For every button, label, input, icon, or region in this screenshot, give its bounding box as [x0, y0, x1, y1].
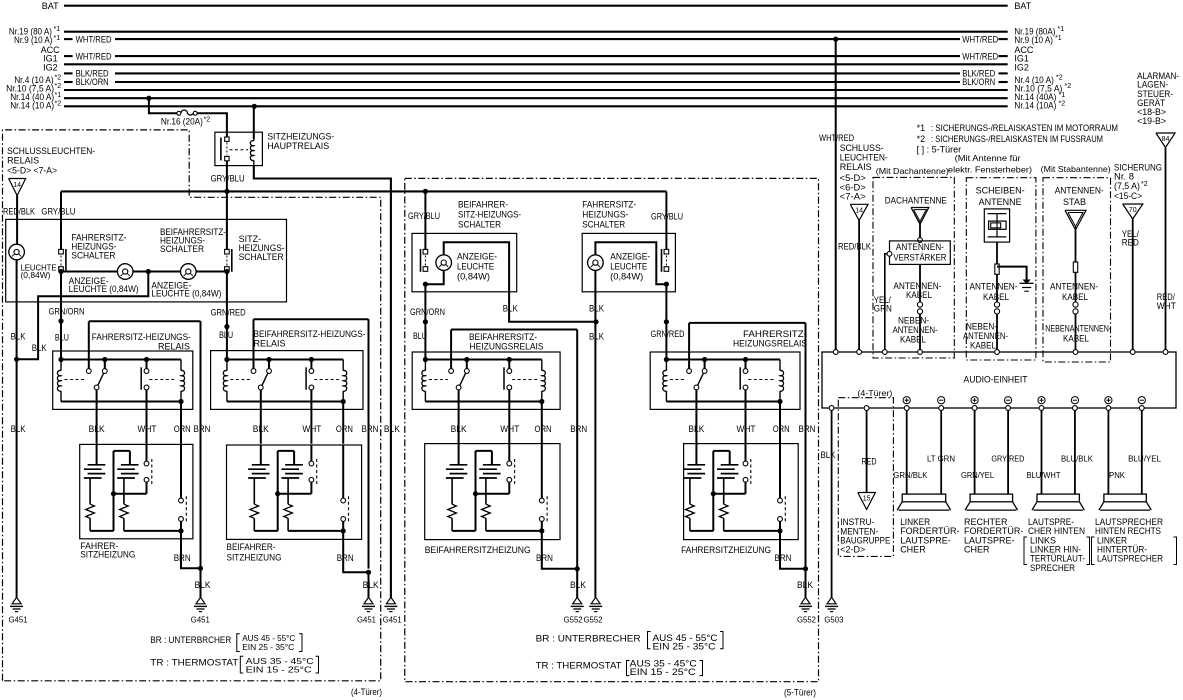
svg-text:BLK: BLK — [363, 580, 379, 590]
svg-text:G451: G451 — [383, 615, 402, 625]
svg-text:KABEL: KABEL — [900, 335, 926, 345]
svg-text:BLK: BLK — [32, 343, 47, 353]
svg-text:WHT/RED: WHT/RED — [819, 133, 854, 143]
svg-text:BLK/ORN: BLK/ORN — [76, 77, 109, 87]
svg-text:EIN 15 - 25°C: EIN 15 - 25°C — [246, 665, 312, 675]
svg-text:LEUCHTE: LEUCHTE — [610, 261, 647, 271]
svg-text:BRN: BRN — [775, 553, 792, 563]
svg-text:: SICHERUNGS-/RELAISKASTEN IM: : SICHERUNGS-/RELAISKASTEN IM MOTORRAUM — [931, 123, 1118, 133]
svg-text:RELAIS: RELAIS — [158, 341, 190, 351]
svg-text:AUDIO-EINHEIT: AUDIO-EINHEIT — [964, 375, 1028, 385]
svg-text:14: 14 — [855, 207, 863, 214]
svg-text:(Mit Dachantenne): (Mit Dachantenne) — [876, 166, 949, 176]
svg-text:IG2: IG2 — [1014, 62, 1029, 72]
svg-text:BEIFAHRER-: BEIFAHRER- — [227, 542, 276, 552]
svg-text:WHT: WHT — [138, 424, 157, 434]
svg-text:TR : THERMOSTAT: TR : THERMOSTAT — [150, 658, 239, 668]
svg-text:KABEL: KABEL — [1062, 292, 1088, 302]
svg-text:(7,5 A): (7,5 A) — [1114, 181, 1140, 191]
svg-text:*1: *1 — [917, 123, 926, 133]
svg-text:BLK: BLK — [589, 332, 604, 342]
svg-text:Nr.9 (10 A): Nr.9 (10 A) — [1014, 35, 1053, 45]
svg-text:ANTENNEN-: ANTENNEN- — [1050, 282, 1098, 292]
svg-text:<5-D> <7-A>: <5-D> <7-A> — [7, 165, 57, 175]
svg-text:ANTENNEN-: ANTENNEN- — [963, 331, 1008, 341]
svg-text:BLK: BLK — [503, 304, 518, 314]
svg-text:EIN 25 - 35°C: EIN 25 - 35°C — [653, 641, 717, 651]
svg-text:ORN: ORN — [174, 424, 191, 434]
svg-text:FAHRERSITZ-: FAHRERSITZ- — [582, 200, 636, 210]
svg-text:LT GRN: LT GRN — [927, 453, 955, 463]
svg-text:*2: *2 — [1141, 181, 1148, 188]
svg-text:*2: *2 — [1059, 100, 1066, 107]
svg-text:GRN/RED: GRN/RED — [211, 308, 246, 318]
svg-text:BEIFAHRERSITZHEIZUNG: BEIFAHRERSITZHEIZUNG — [425, 545, 531, 555]
svg-text:GRN/RED: GRN/RED — [651, 329, 685, 339]
svg-text:BAT: BAT — [1014, 1, 1031, 11]
svg-text:<15-C>: <15-C> — [1114, 191, 1142, 201]
svg-text:NEBEN-: NEBEN- — [898, 316, 929, 326]
svg-text:GRY/BLU: GRY/BLU — [41, 207, 75, 217]
svg-text:BR : UNTERBRCHER: BR : UNTERBRCHER — [150, 635, 231, 645]
svg-text:Nr. 8: Nr. 8 — [1114, 171, 1134, 181]
svg-text:G451: G451 — [357, 615, 376, 625]
svg-text:BRN: BRN — [194, 424, 211, 434]
svg-text:BLK: BLK — [253, 424, 269, 434]
svg-text:GRN/YEL: GRN/YEL — [961, 470, 994, 480]
svg-text:BLU: BLU — [55, 332, 69, 342]
svg-text:BRN: BRN — [799, 424, 816, 434]
svg-text:STAB: STAB — [1063, 197, 1086, 207]
svg-text:elektr. Fensterheber): elektr. Fensterheber) — [948, 164, 1032, 174]
svg-text:BLK: BLK — [451, 424, 467, 434]
svg-text:BRN: BRN — [337, 553, 354, 563]
svg-text:BLK: BLK — [11, 424, 26, 434]
svg-text:WHT: WHT — [737, 424, 756, 434]
svg-text:<7-A>: <7-A> — [840, 192, 866, 202]
svg-text:BLK/ORN: BLK/ORN — [962, 77, 995, 87]
svg-text:Nr.14 (10A): Nr.14 (10A) — [1014, 101, 1056, 111]
svg-text:WHT: WHT — [302, 424, 321, 434]
svg-text:BLK: BLK — [11, 332, 26, 342]
svg-text:SCHALTER: SCHALTER — [160, 244, 204, 254]
svg-text:LEUCHTE (0,84W): LEUCHTE (0,84W) — [69, 284, 139, 294]
svg-text:GRY/BLU: GRY/BLU — [651, 212, 683, 222]
svg-text:BLK: BLK — [589, 304, 604, 314]
svg-text:ANZEIGE-: ANZEIGE- — [610, 251, 650, 261]
svg-text:14: 14 — [13, 182, 21, 189]
svg-text:*2: *2 — [204, 116, 211, 123]
svg-text:SCHALTER: SCHALTER — [582, 220, 625, 230]
svg-text:G552: G552 — [584, 615, 603, 625]
svg-text:BLK: BLK — [821, 450, 836, 460]
svg-text:GRN/ORN: GRN/ORN — [410, 307, 445, 317]
svg-text:BLU: BLU — [219, 330, 233, 340]
svg-text:*1: *1 — [54, 26, 61, 33]
svg-text:ORN: ORN — [773, 424, 790, 434]
svg-text:HAUPTRELAIS: HAUPTRELAIS — [267, 141, 329, 151]
svg-text:(4-Türer): (4-Türer) — [857, 388, 892, 398]
svg-text:70: 70 — [1129, 207, 1137, 214]
svg-text:BEIFAHRERSITZ-HEIZUNGS-: BEIFAHRERSITZ-HEIZUNGS- — [254, 329, 366, 339]
svg-text:SITZ-HEIZUNGS-: SITZ-HEIZUNGS- — [458, 210, 521, 220]
svg-text:(0,84W): (0,84W) — [610, 271, 643, 281]
svg-text:WHT/RED: WHT/RED — [962, 51, 998, 61]
svg-text:RELAIS: RELAIS — [840, 162, 872, 172]
svg-text:GRN: GRN — [874, 304, 892, 314]
svg-text:ORN: ORN — [535, 424, 552, 434]
svg-text:LAUTSPRECHER: LAUTSPRECHER — [1097, 554, 1163, 564]
svg-text:RELAIS: RELAIS — [7, 156, 39, 166]
svg-text:RED: RED — [862, 456, 877, 466]
svg-text:(0,84W): (0,84W) — [457, 271, 490, 281]
svg-text:LEUCHTE: LEUCHTE — [457, 261, 494, 271]
svg-text:HEIZUNGS-: HEIZUNGS- — [582, 210, 628, 220]
svg-text:BRN: BRN — [362, 424, 379, 434]
svg-text:<2-D>: <2-D> — [840, 545, 865, 555]
svg-text:(5-Türer): (5-Türer) — [784, 687, 816, 697]
svg-text:VERSTÄRKER: VERSTÄRKER — [893, 252, 946, 262]
svg-text:*1: *1 — [1055, 35, 1062, 42]
svg-text:G451: G451 — [191, 615, 210, 625]
svg-text:BRN: BRN — [174, 553, 191, 563]
svg-text:PNK: PNK — [1109, 470, 1125, 480]
svg-text:(0,84W): (0,84W) — [21, 270, 51, 280]
svg-text:SCHALTER: SCHALTER — [239, 252, 284, 262]
svg-text:ANZEIGE-: ANZEIGE- — [457, 251, 497, 261]
svg-text:15: 15 — [863, 496, 871, 503]
svg-text:BLU/BLK: BLU/BLK — [1061, 453, 1093, 463]
svg-text:BRN: BRN — [570, 424, 587, 434]
svg-text:ANTENNEN-: ANTENNEN- — [970, 282, 1018, 292]
svg-text:ANTENNEN-: ANTENNEN- — [893, 325, 938, 335]
svg-text:WHT: WHT — [1157, 301, 1176, 311]
svg-text:TR : THERMOSTAT: TR : THERMOSTAT — [536, 660, 623, 670]
svg-text:(Mit Stabantenne): (Mit Stabantenne) — [1041, 164, 1111, 174]
svg-text:RELAIS: RELAIS — [254, 339, 286, 349]
svg-text:BEIFAHRER-: BEIFAHRER- — [458, 200, 508, 210]
svg-text:*2: *2 — [917, 134, 926, 144]
svg-text:(4-Türer): (4-Türer) — [351, 687, 382, 697]
svg-text:GRY/BLU: GRY/BLU — [408, 211, 440, 221]
svg-text:LEUCHTE (0,84W): LEUCHTE (0,84W) — [151, 289, 221, 299]
svg-text:Nr.9 (10 A): Nr.9 (10 A) — [14, 35, 53, 45]
svg-text:SCHALTER: SCHALTER — [458, 220, 501, 230]
svg-text:KABEL: KABEL — [906, 290, 932, 300]
svg-text:CHER: CHER — [964, 545, 990, 555]
svg-text:G552: G552 — [564, 615, 583, 625]
svg-text:KABEL: KABEL — [1063, 334, 1089, 344]
svg-text:G552: G552 — [797, 615, 816, 625]
svg-text:BAT: BAT — [42, 1, 59, 11]
svg-text:LEUCHTEN-: LEUCHTEN- — [840, 153, 888, 163]
svg-text:ANTENNEN-: ANTENNEN- — [896, 242, 944, 252]
svg-text:*2: *2 — [55, 83, 62, 90]
svg-text:*2: *2 — [1065, 83, 1072, 90]
svg-text:EIN 25 - 35°C: EIN 25 - 35°C — [242, 642, 294, 652]
svg-text:EIN 15 - 25°C: EIN 15 - 25°C — [630, 667, 697, 677]
svg-text:WHT/RED: WHT/RED — [76, 34, 112, 44]
svg-text:*2: *2 — [55, 75, 62, 82]
svg-text:SCHEIBEN-: SCHEIBEN- — [976, 186, 1025, 196]
svg-text:ANTENNE: ANTENNE — [979, 197, 1022, 207]
svg-text:GRN/BLK: GRN/BLK — [893, 470, 927, 480]
svg-text:WHT/RED: WHT/RED — [962, 34, 998, 44]
svg-text:GRY/RED: GRY/RED — [991, 453, 1024, 463]
svg-text:*2: *2 — [55, 100, 62, 107]
svg-text:IG2: IG2 — [43, 62, 58, 72]
svg-text:(Mit Antenne für: (Mit Antenne für — [955, 153, 1021, 163]
svg-text:CHER: CHER — [900, 545, 926, 555]
svg-text:BLK: BLK — [89, 424, 105, 434]
svg-text:BRN: BRN — [536, 553, 553, 563]
svg-text:BLK: BLK — [195, 580, 211, 590]
svg-text:BLU/WHT: BLU/WHT — [1027, 470, 1062, 480]
svg-text:G503: G503 — [824, 615, 843, 625]
svg-text:Nr.16 (20A): Nr.16 (20A) — [161, 116, 203, 126]
svg-text:BR : UNTERBRECHER: BR : UNTERBRECHER — [536, 633, 642, 643]
svg-text:WHT: WHT — [500, 424, 519, 434]
svg-text:BLU: BLU — [413, 331, 427, 341]
svg-text:*1: *1 — [55, 92, 62, 99]
svg-text:HEIZUNGSRELAIS: HEIZUNGSRELAIS — [470, 342, 544, 352]
svg-text:KABEL: KABEL — [983, 292, 1009, 302]
svg-text:BLK: BLK — [384, 424, 400, 434]
svg-text:G451: G451 — [9, 615, 28, 625]
svg-text:BLK: BLK — [688, 424, 704, 434]
svg-text:Nr.14 (10 A): Nr.14 (10 A) — [10, 101, 54, 111]
svg-text:SITZHEIZUNG: SITZHEIZUNG — [80, 550, 135, 560]
svg-text:BLU/YEL: BLU/YEL — [1128, 453, 1161, 463]
svg-text:RED: RED — [1122, 237, 1139, 247]
svg-text:*1: *1 — [1058, 26, 1065, 33]
svg-text:*2: *2 — [1056, 75, 1063, 82]
svg-text:ORN: ORN — [336, 424, 353, 434]
svg-text:RED/BLK: RED/BLK — [838, 242, 871, 252]
svg-text:WHT/RED: WHT/RED — [76, 51, 112, 61]
svg-text:FAHRERSITZHEIZUNG: FAHRERSITZHEIZUNG — [681, 545, 771, 555]
svg-text:SCHALTER: SCHALTER — [71, 251, 115, 261]
svg-text:BEIFAHRERSITZ-: BEIFAHRERSITZ- — [469, 332, 537, 342]
svg-text:GRN/ORN: GRN/ORN — [49, 307, 85, 317]
svg-text:SITZHEIZUNG: SITZHEIZUNG — [227, 553, 282, 563]
svg-text:NEBENANTENNEN-: NEBENANTENNEN- — [1045, 324, 1111, 334]
svg-text:KABEL: KABEL — [970, 340, 996, 350]
svg-text:HEIZUNGSRELAIS: HEIZUNGSRELAIS — [733, 339, 807, 349]
svg-text:NEBEN-: NEBEN- — [966, 321, 997, 331]
svg-text:RED/BLK: RED/BLK — [3, 207, 35, 217]
svg-text:DACHANTENNE: DACHANTENNE — [885, 196, 947, 206]
svg-text:*1: *1 — [1059, 92, 1066, 99]
svg-text:SCHLUSS-: SCHLUSS- — [840, 143, 884, 153]
svg-text:: SICHERUNGS-/RELAISKASTEN IM: : SICHERUNGS-/RELAISKASTEN IM FUSSRAUM — [931, 134, 1103, 144]
svg-text:SPRECHER: SPRECHER — [1030, 563, 1075, 573]
svg-text:84: 84 — [1162, 136, 1170, 143]
svg-text:<19-B>: <19-B> — [1137, 116, 1166, 126]
svg-text:ANTENNEN-: ANTENNEN- — [1055, 186, 1104, 196]
svg-text:*1: *1 — [54, 35, 61, 42]
